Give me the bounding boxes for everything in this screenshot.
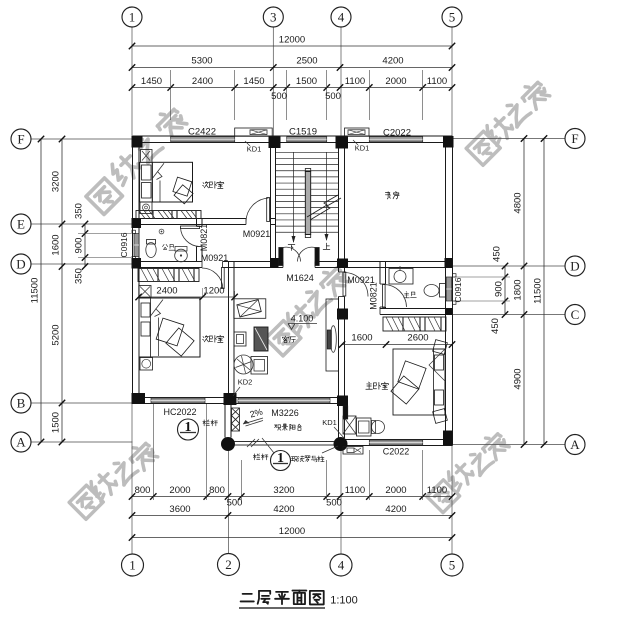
label KD1 left: [245, 141, 261, 154]
door M0821 bath2 (in bath east wall): [181, 226, 200, 247]
dim line bottom row2: 3600 4200 4200: [129, 504, 455, 519]
room label bath2: [162, 244, 167, 249]
grid line 3 (vertical, top): [272, 27, 274, 137]
svg-text:1450: 1450: [243, 76, 264, 87]
svg-text:1: 1: [185, 420, 192, 435]
sofa living: [251, 357, 268, 375]
balcony west AC strip: [232, 408, 240, 431]
svg-text:500: 500: [227, 498, 243, 509]
watermark top-right: [466, 78, 551, 165]
svg-text:1800: 1800: [513, 279, 524, 300]
column B2: [224, 393, 237, 405]
svg-text:800: 800: [209, 485, 225, 496]
wardrobe bedroom3: [138, 269, 199, 282]
wall grid4: [339, 136, 345, 404]
grid line B (horizontal, left): [31, 402, 133, 404]
stair handrail: [305, 169, 310, 238]
svg-text:500: 500: [271, 91, 287, 102]
title: [239, 591, 358, 608]
svg-text:1:100: 1:100: [330, 595, 358, 607]
axis bubble 4 bottom: [330, 554, 352, 576]
axis bubble 5 bottom: [441, 554, 463, 576]
svg-text:C2022: C2022: [383, 447, 410, 457]
slope arrow 2%: [243, 407, 264, 426]
svg-text:11500: 11500: [533, 278, 544, 304]
watermark top-left: [86, 105, 188, 215]
dim line right: 4800 1800 4900: [513, 135, 528, 447]
floor drain bath2: [159, 229, 164, 234]
svg-text:5300: 5300: [191, 56, 212, 67]
window C0916 east: [446, 277, 452, 301]
washbasin bath2: [175, 247, 188, 262]
toilet master bath: [424, 284, 446, 298]
grid line 4 (vertical): [340, 27, 342, 554]
svg-text:500: 500: [326, 498, 342, 509]
stair walk line down: [292, 152, 296, 243]
side table living: [234, 332, 246, 346]
AC platform KD1 right (north): [345, 128, 370, 136]
grid line 1 (vertical): [131, 27, 133, 554]
column B1: [132, 393, 146, 404]
stair treads: [276, 152, 339, 232]
svg-text:A: A: [16, 435, 26, 450]
svg-text:C0916: C0916: [453, 277, 463, 302]
window sill marks C0916 east: [453, 274, 456, 305]
dim line top overall 12000: [129, 35, 455, 50]
level mark 4.100: [288, 314, 317, 330]
svg-text:5200: 5200: [51, 324, 62, 345]
grid line 5 (vertical): [451, 27, 453, 554]
svg-text:2000: 2000: [169, 485, 190, 496]
wall stair west: [271, 136, 276, 268]
room label living: [282, 336, 288, 342]
window C2022 south: [369, 440, 422, 445]
stair break line: [307, 195, 341, 220]
armchair living: [234, 299, 266, 319]
svg-text:1100: 1100: [345, 485, 365, 496]
svg-text:1600: 1600: [51, 234, 62, 255]
window C2022 north: [369, 137, 422, 142]
column F5: [443, 136, 454, 148]
label KD1 bottom: [322, 418, 345, 439]
wall balcony east (below B): [339, 404, 345, 440]
axis bubble F right: [565, 129, 585, 149]
bed bedroom2: [140, 150, 193, 214]
sideboard against grid4 wall: [326, 299, 339, 371]
balcony railing south: [235, 439, 335, 447]
section symbol 1 (left): [178, 419, 199, 440]
window C0916 west: [134, 234, 139, 257]
grid line E (horizontal, left): [31, 223, 133, 225]
svg-text:1500: 1500: [296, 76, 317, 87]
svg-text:A: A: [570, 437, 580, 452]
svg-text:4200: 4200: [382, 56, 403, 67]
column D5: [445, 258, 453, 268]
room label bedroom3: [203, 336, 209, 342]
svg-text:2000: 2000: [385, 76, 406, 87]
wall master bath west: [380, 262, 386, 309]
axis bubble D left: [11, 254, 31, 274]
svg-text:2400: 2400: [156, 286, 177, 297]
top extension lines: [171, 70, 423, 120]
dim line left sub: 350 900 350: [74, 203, 132, 284]
svg-text:KD1: KD1: [322, 418, 337, 427]
column F4: [336, 137, 349, 149]
svg-text:1: 1: [129, 558, 136, 573]
svg-text:M0921: M0921: [201, 253, 229, 263]
svg-text:500: 500: [325, 91, 341, 102]
axis bubble 3 top: [263, 7, 283, 27]
room label balcony: [275, 425, 281, 430]
wall E (bedroom2/bath south): [133, 219, 276, 225]
sliding door M3226: [238, 398, 330, 403]
wall D (corridor south / study south): [133, 262, 453, 268]
bed bedroom3: [139, 298, 200, 357]
svg-text:350: 350: [74, 268, 85, 284]
svg-text:4800: 4800: [513, 192, 524, 213]
wall B (south exterior of bedroom3/living): [133, 398, 345, 404]
interior dim 2400/1200: [135, 284, 237, 300]
svg-text:3200: 3200: [273, 485, 294, 496]
wall grid2 (bedroom3 east): [229, 262, 235, 404]
svg-text:5: 5: [449, 10, 456, 25]
dim line right sub: 450 900 450: [454, 246, 510, 334]
svg-text:E: E: [17, 217, 25, 232]
wall west exterior: [133, 136, 140, 404]
dim line right overall 11500: [533, 135, 548, 447]
grid line A (horizontal): [31, 442, 565, 445]
svg-text:4200: 4200: [273, 504, 294, 515]
svg-text:D: D: [16, 257, 25, 272]
column A5: [443, 431, 453, 446]
svg-text:1500: 1500: [51, 412, 62, 433]
svg-text:2: 2: [225, 557, 232, 572]
balcony door leaf KD2: [343, 406, 348, 419]
wall C (master bath south): [380, 309, 453, 315]
dim line top row2: 5300 2500 4200: [129, 56, 455, 71]
svg-text:900: 900: [494, 281, 505, 297]
svg-text:M0821: M0821: [199, 224, 209, 252]
window HC2022: [151, 398, 205, 403]
wardrobe bedroom2: [136, 211, 201, 219]
column D4: [337, 259, 348, 269]
wall bath2 east: [197, 219, 203, 262]
axis bubble C right: [565, 305, 585, 325]
column D1: [132, 258, 142, 269]
door M1624 double (stair hall, in wall D): [279, 247, 319, 265]
axis bubble F left: [11, 129, 31, 149]
section symbol 2 (balcony): [262, 438, 291, 471]
grid line F (horizontal): [31, 138, 565, 141]
AC platform KD1 left (north): [235, 128, 273, 136]
svg-text:KD1: KD1: [355, 144, 370, 153]
svg-text:2500: 2500: [296, 56, 317, 67]
watermark center: [266, 263, 351, 356]
svg-text:800: 800: [135, 485, 151, 496]
svg-text:F: F: [17, 132, 24, 147]
bedside table master top: [433, 340, 448, 355]
window sill marks C0916 west: [132, 230, 135, 260]
grid line C (horizontal, right): [453, 314, 566, 316]
svg-text:1100: 1100: [345, 76, 365, 87]
bedside table bedroom3: [139, 286, 151, 298]
bedside table master bottom: [433, 409, 448, 424]
svg-text:KD2: KD2: [238, 378, 253, 387]
svg-text:3200: 3200: [51, 171, 62, 192]
svg-text:KD1: KD1: [247, 145, 262, 154]
desk master: [357, 418, 372, 436]
column F1: [132, 136, 143, 148]
label KD1 right: [353, 140, 369, 153]
AC platform below wall A: [343, 447, 363, 455]
svg-text:1100: 1100: [427, 76, 447, 87]
svg-text:900: 900: [74, 238, 85, 254]
wall east exterior: [446, 136, 453, 446]
dim line left overall 11500: [30, 136, 45, 445]
svg-text:M1624: M1624: [286, 273, 314, 283]
door M0921 bedroom3 (in wall D): [202, 268, 224, 289]
TV living: [254, 327, 268, 351]
room label master bedroom: [366, 382, 373, 389]
side table bedroom3: [140, 358, 153, 371]
stair label down: [288, 245, 295, 251]
interior dim 1600/2600: [339, 333, 455, 348]
bed master: [391, 349, 445, 415]
washbasin master bath: [389, 266, 413, 284]
svg-text:2000: 2000: [385, 485, 406, 496]
svg-text:M0821: M0821: [369, 282, 379, 310]
svg-text:1100: 1100: [427, 485, 447, 496]
svg-text:4200: 4200: [385, 504, 406, 515]
svg-text:C0916: C0916: [119, 232, 129, 257]
door M0921 vestibule (in grid4 wall): [343, 272, 368, 297]
svg-text:D: D: [570, 259, 579, 274]
label railing balcony: [253, 454, 260, 460]
room label bedroom2: [203, 182, 209, 188]
svg-text:C2422: C2422: [188, 127, 216, 138]
stair walk line up: [325, 152, 329, 241]
axis bubble D right: [565, 256, 585, 276]
svg-text:3600: 3600: [169, 504, 190, 515]
label railing left: [203, 420, 210, 426]
column D3: [270, 258, 279, 268]
svg-text:C: C: [571, 307, 580, 322]
svg-text:1450: 1450: [141, 76, 162, 87]
column F3: [269, 137, 281, 149]
dim line bottom row1: 800 2000 800 500 3200 500 1100 2000 1100: [129, 485, 455, 509]
axis bubble A left: [11, 432, 31, 452]
svg-text:HC2022: HC2022: [163, 407, 196, 417]
wall balcony west: [225, 404, 231, 438]
axis bubble 1 top: [122, 7, 142, 27]
window C2422: [171, 137, 235, 142]
label KD2: [233, 378, 252, 397]
column C4: [337, 309, 348, 320]
axis bubble B left: [11, 393, 31, 413]
svg-text:4900: 4900: [513, 368, 524, 389]
svg-text:4: 4: [338, 10, 345, 25]
room label study: [385, 192, 390, 199]
fan living: [234, 355, 253, 374]
room label master bath: [404, 292, 410, 298]
column B4: [337, 396, 348, 407]
dim line bottom overall 12000: [129, 526, 455, 541]
axis bubble 4 top: [331, 7, 351, 27]
column E1: [132, 218, 142, 228]
bottom extension lines: [153, 404, 422, 500]
axis bubble 5 top: [442, 7, 462, 27]
dining table living: [330, 326, 336, 353]
svg-text:1: 1: [129, 10, 136, 25]
round column A2 (roman column): [221, 437, 235, 451]
svg-text:2400: 2400: [192, 76, 213, 87]
svg-text:1600: 1600: [351, 333, 372, 344]
svg-text:C2022: C2022: [383, 128, 411, 139]
wall F (north exterior): [133, 136, 453, 143]
window C1519: [287, 137, 327, 142]
svg-text:F: F: [571, 131, 578, 146]
svg-text:5: 5: [449, 558, 456, 573]
grid line 2 (vertical, bottom): [228, 450, 230, 553]
AC shelf master: [343, 416, 356, 434]
axis bubble 2 bottom: [218, 554, 240, 576]
toilet bath2: [146, 240, 156, 258]
svg-text:1200: 1200: [203, 286, 224, 297]
svg-text:1: 1: [277, 451, 284, 466]
chair master: [372, 421, 385, 434]
svg-text:450: 450: [490, 318, 501, 334]
label roman column: [291, 446, 338, 462]
axis bubble 1 bottom: [122, 554, 144, 576]
wardrobe master: [383, 317, 446, 331]
axis bubble E left: [11, 214, 31, 234]
svg-text:B: B: [17, 396, 26, 411]
wall A (master bedroom south): [339, 440, 453, 446]
door M0821 master bath (in bath west wall): [383, 285, 407, 308]
svg-text:M3226: M3226: [271, 408, 299, 418]
svg-text:12000: 12000: [279, 35, 305, 46]
svg-text:12000: 12000: [279, 526, 305, 537]
grid line D (horizontal): [31, 264, 565, 266]
svg-text:4: 4: [338, 558, 345, 573]
svg-text:450: 450: [492, 246, 503, 262]
svg-text:4.100: 4.100: [291, 314, 314, 324]
dim line left: 3200 1600 5200 1500: [51, 136, 66, 445]
stair label up: [323, 243, 330, 249]
column C5: [445, 308, 453, 315]
svg-text:11500: 11500: [30, 278, 41, 304]
svg-text:3: 3: [270, 10, 277, 25]
door M0921 bedroom2 (in wall E): [246, 198, 270, 222]
svg-text:350: 350: [74, 203, 85, 219]
round column A4 (roman column): [334, 437, 348, 451]
svg-text:C1519: C1519: [289, 127, 317, 138]
watermark bottom-left: [69, 439, 159, 519]
svg-text:M0921: M0921: [243, 229, 271, 239]
dim line top row3: 1450 2400 1450 500 1500 500 1100 2000 1100: [129, 76, 455, 102]
watermark bottom-right: [427, 429, 511, 512]
svg-text:2600: 2600: [407, 333, 428, 344]
axis bubble A right: [565, 435, 585, 455]
